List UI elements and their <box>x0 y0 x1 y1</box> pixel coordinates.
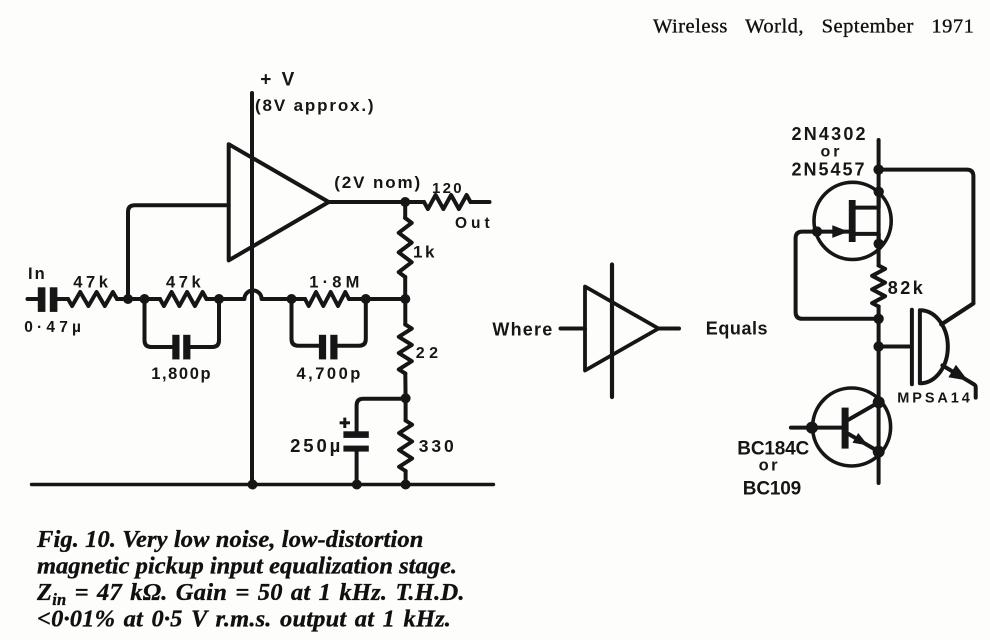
wire input cap to 47k <box>58 297 69 301</box>
svg-text:330: 330 <box>419 436 457 456</box>
wire BC184C emitter diagonal <box>849 434 879 452</box>
wire feedback from node A up and right to op-amp inverting input <box>128 205 229 299</box>
wire node H to 330 resistor <box>404 398 408 420</box>
capacitor C 1800p right plate <box>183 335 190 360</box>
wire 22 bottom to node H <box>403 374 407 399</box>
svg-text:Zin = 47 kΩ. Gain = 50 at 1 kH: Zin = 47 kΩ. Gain = 50 at 1 kHz. T.H.D. <box>36 579 465 609</box>
svg-text:4,700p: 4,700p <box>297 365 363 383</box>
svg-text:MPSA14: MPSA14 <box>897 391 972 407</box>
wire 1k bottom to node F <box>403 277 407 299</box>
wire right circuit vertical spine top section <box>877 140 881 266</box>
wire MPSA14 emitter diagonal with stub <box>942 365 975 397</box>
svg-text:Out: Out <box>455 215 494 232</box>
node ground rail 250u <box>352 480 362 490</box>
capacitor C 250u plus sign <box>340 421 350 424</box>
wire ground rail <box>32 483 494 486</box>
node ground rail 330 <box>401 480 411 490</box>
wire MPSA14 collector diagonal <box>941 303 973 324</box>
svg-text:(8V approx.): (8V approx.) <box>255 96 375 115</box>
node output junction <box>400 197 410 207</box>
node BC184C base on circle <box>806 422 818 434</box>
node BC184C emitter <box>873 446 885 458</box>
svg-text:Equals: Equals <box>706 319 768 339</box>
transistor U2 MPSA14 flat bar outer <box>910 310 914 385</box>
capacitor C 250u top plate <box>343 431 368 438</box>
node MPSA14 base junction <box>873 341 883 351</box>
capacitor C 4700p left plate <box>319 335 326 360</box>
capacitor C 1800p left plate <box>172 335 179 360</box>
svg-text:or: or <box>821 144 843 161</box>
svg-text:Wireless World, September 1971: Wireless World, September 1971 <box>653 16 974 38</box>
wire op-amp output to 120 resistor <box>329 200 424 204</box>
node JFET gate on circle <box>812 226 822 236</box>
transistor U2 MPSA14 flat bar inner <box>918 310 922 383</box>
wire 250u cap bottom stem to ground rail <box>355 452 359 485</box>
wire JFET drain lead <box>856 192 879 208</box>
node D 4700p left <box>287 294 297 304</box>
wire supply line through Where triangle <box>610 265 614 398</box>
transistor Q2 BC184C circle <box>813 388 891 466</box>
svg-text:In: In <box>28 265 47 283</box>
resistor R 1k <box>399 218 412 277</box>
wire output line of Where symbol <box>659 327 680 331</box>
wire node A to node B to 47k feedback resistor <box>117 297 160 301</box>
resistor R 47k input <box>68 292 117 306</box>
svg-text:BC109: BC109 <box>743 479 801 500</box>
svg-text:47k: 47k <box>73 274 111 292</box>
svg-text:Where: Where <box>492 320 553 340</box>
transistor Q1 JFET channel bar <box>849 200 856 242</box>
wire node E to node F <box>349 297 405 301</box>
wire 4700p branch from node D down to cap and up to node E <box>292 299 366 346</box>
svg-text:2N4302: 2N4302 <box>792 124 868 144</box>
wire collector loop from top node right and down to MPSA14 <box>879 170 974 325</box>
wire BC184C collector diagonal <box>849 402 879 419</box>
resistor R 1.8M <box>305 292 349 306</box>
op-amp U1 triangle <box>229 144 329 260</box>
wire 1800p branch from node B down to cap and up to node C <box>145 299 220 347</box>
capacitor C 0.47u input left plate <box>38 287 46 312</box>
node JFET source <box>874 239 884 249</box>
node F divider junction <box>400 294 410 304</box>
wire In stub <box>28 297 38 301</box>
node BC184C collector <box>873 396 885 408</box>
svg-text:250µ: 250µ <box>290 435 343 456</box>
resistor R 82k <box>872 266 885 307</box>
resistor R 47k feedback <box>160 292 207 306</box>
svg-text:magnetic pickup input equaliza: magnetic pickup input equalization stage… <box>37 553 457 580</box>
transistor Q2 emitter arrowhead <box>853 433 869 446</box>
wire node F to 22 resistor <box>403 299 407 325</box>
node C 1800p right <box>214 294 224 304</box>
wire BC184C base lead <box>791 426 842 430</box>
wire 250u branch from node H left and down to cap plus <box>357 399 406 432</box>
svg-text:Fig. 10. Very low noise, low-d: Fig. 10. Very low noise, low-distortion <box>36 526 423 553</box>
node B 1800p left <box>140 294 150 304</box>
node 82k bottom gate loop <box>873 314 883 324</box>
resistor R 330 <box>399 421 412 472</box>
node right top branch <box>873 164 883 174</box>
resistor R 120 <box>424 195 471 209</box>
node H 250u junction <box>401 393 411 403</box>
node ground rail supply <box>248 480 258 490</box>
node JFET drain <box>874 187 884 197</box>
svg-text:47k: 47k <box>166 274 204 292</box>
wire input line of Where symbol <box>561 327 586 331</box>
svg-text:82k: 82k <box>888 278 926 298</box>
svg-text:2N5457: 2N5457 <box>792 160 867 180</box>
wire 1k top from output node <box>403 202 407 218</box>
wire MPSA14 base lead <box>879 345 910 349</box>
transistor U2 MPSA14 body arc <box>922 310 948 383</box>
transistor U2 MPSA14 emitter arrowhead <box>948 365 968 381</box>
svg-text:120: 120 <box>432 180 464 197</box>
wire +V supply vertical line through op-amp down to ground rail <box>250 93 254 485</box>
op-amp symbol of Where triangle <box>585 287 659 371</box>
svg-text:1,800p: 1,800p <box>151 365 212 383</box>
svg-text:22: 22 <box>416 345 443 362</box>
capacitor C 0.47u input right plate <box>50 287 58 312</box>
transistor Q1 2N4302 JFET circle <box>814 182 891 259</box>
wire 330 bottom to ground rail <box>404 471 408 485</box>
transistor Q2 BC184C base bar <box>842 408 849 449</box>
wire to Out terminal <box>471 200 490 204</box>
svg-text:<0·01% at 0·5 V r.m.s. output: <0·01% at 0·5 V r.m.s. output at 1 kHz. <box>37 606 451 633</box>
svg-text:+ V: + V <box>260 70 297 91</box>
wire node C to hop over supply line to node D <box>207 290 306 299</box>
capacitor C 250u bottom plate <box>343 446 368 452</box>
node E 4700p right <box>361 294 371 304</box>
wire JFET source lead <box>856 234 879 246</box>
svg-text:1k: 1k <box>413 243 437 262</box>
transistor Q1 gate arrowhead <box>832 225 849 238</box>
capacitor C 4700p right plate <box>330 335 337 360</box>
node A feedback junction <box>123 294 133 304</box>
svg-text:1·8M: 1·8M <box>309 274 363 292</box>
svg-text:or: or <box>759 457 781 475</box>
wire right circuit vertical spine bottom section <box>877 307 881 484</box>
resistor R 22 <box>399 325 412 374</box>
svg-text:(2V nom): (2V nom) <box>334 173 422 192</box>
wire JFET gate feedback loop to bottom of 82k <box>796 232 879 319</box>
svg-text:0·47µ: 0·47µ <box>24 319 85 336</box>
